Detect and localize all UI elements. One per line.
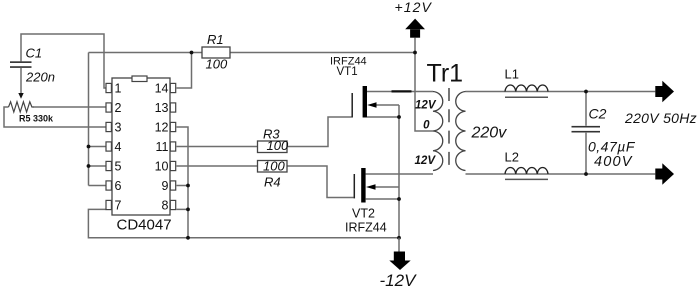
svg-text:VT2: VT2 xyxy=(352,207,375,221)
wire top rail to R1 and +12V xyxy=(89,52,416,54)
svg-text:6: 6 xyxy=(115,179,122,193)
wire pin 10 to R4 xyxy=(177,165,258,167)
junction dot VT1 source xyxy=(397,115,401,119)
junction dot bus pin5 xyxy=(87,164,91,168)
junction dot bus pin8 xyxy=(186,208,190,212)
svg-text:12V: 12V xyxy=(415,100,437,112)
potentiometer R5 wiper arrow xyxy=(18,93,23,99)
resistor R4 xyxy=(258,158,288,189)
resistor R3 xyxy=(258,127,289,154)
svg-text:IRFZ44: IRFZ44 xyxy=(345,221,387,235)
svg-text:R1: R1 xyxy=(207,32,224,47)
svg-text:11: 11 xyxy=(156,140,169,154)
svg-text:L1: L1 xyxy=(505,67,519,82)
core xyxy=(448,88,450,168)
output arrow top xyxy=(655,81,674,102)
wire R5 right end to pin 2 xyxy=(33,106,106,108)
svg-text:220V 50Hz: 220V 50Hz xyxy=(624,110,697,126)
secondary winding xyxy=(456,92,466,171)
wire VT2 drain to transformer bottom xyxy=(366,173,433,175)
svg-text:R4: R4 xyxy=(264,175,281,190)
capacitor C2 xyxy=(572,106,636,171)
svg-text:0: 0 xyxy=(423,120,430,132)
junction dot C2 top xyxy=(584,90,588,94)
junction dot bottom rail xyxy=(397,236,401,240)
junction dot R1/pin14 xyxy=(190,51,194,55)
svg-text:Tr1: Tr1 xyxy=(427,60,464,88)
transistor Q1 VT1 IRFZ44 xyxy=(330,56,399,118)
svg-text:220v: 220v xyxy=(471,125,508,142)
junction dot C2 bottom xyxy=(584,172,588,176)
IC U1 CD4047 body xyxy=(112,76,172,234)
svg-text:7: 7 xyxy=(115,198,122,212)
svg-text:400V: 400V xyxy=(594,154,633,170)
power -12V xyxy=(380,238,418,288)
svg-text:CD4047: CD4047 xyxy=(117,217,172,234)
svg-text:100: 100 xyxy=(206,57,228,72)
IC pin numbers right 14-8 xyxy=(155,81,169,212)
potentiometer R5 zigzag xyxy=(9,102,34,112)
output arrow bottom xyxy=(655,163,674,184)
wire secondary top to output xyxy=(466,91,656,93)
wire thick segment on VT1 drain xyxy=(392,90,412,92)
svg-text:8: 8 xyxy=(162,198,169,212)
svg-text:10: 10 xyxy=(155,159,169,173)
svg-text:VT1: VT1 xyxy=(337,66,358,78)
svg-text:2: 2 xyxy=(115,101,122,115)
svg-text:13: 13 xyxy=(155,101,169,115)
svg-text:L2: L2 xyxy=(505,150,519,165)
wire pin 11 to R3 xyxy=(177,146,258,148)
inductor L2 xyxy=(505,150,549,180)
svg-text:5: 5 xyxy=(115,159,122,173)
wire secondary bottom to output xyxy=(466,173,656,175)
svg-text:100: 100 xyxy=(267,138,289,153)
svg-text:100: 100 xyxy=(263,158,285,173)
svg-text:9: 9 xyxy=(162,179,169,193)
capacitor C1 xyxy=(10,46,55,85)
svg-text:220n: 220n xyxy=(25,70,55,85)
wire R4 to VT2 gate xyxy=(287,166,354,198)
junction dot bus pin9 xyxy=(186,184,190,188)
wire VSS bus pins 12,9,8 xyxy=(177,127,189,238)
primary winding xyxy=(433,92,443,171)
junction dot +12V rail xyxy=(413,51,417,55)
wire VT1 source bus down to rail xyxy=(398,105,400,238)
IC pin stubs right xyxy=(170,83,175,209)
wire C2 vertical xyxy=(585,92,587,175)
transistor Q2 VT2 IRFZ44 xyxy=(345,168,399,235)
svg-text:12V: 12V xyxy=(415,155,437,167)
svg-text:-12V: -12V xyxy=(380,271,418,288)
junction dot bus rail xyxy=(186,236,190,240)
svg-text:14: 14 xyxy=(155,81,169,95)
wire pin 7 to bottom rail xyxy=(88,209,399,237)
wire R3 to VT1 gate xyxy=(287,117,352,147)
IC pin stubs left xyxy=(106,83,111,209)
svg-text:3: 3 xyxy=(115,120,122,134)
wire VDD bus pins 4,5,6 xyxy=(89,53,106,186)
transformer Tr1 xyxy=(415,60,508,171)
svg-text:0,47µF: 0,47µF xyxy=(588,139,636,155)
inductor L1 xyxy=(505,67,549,98)
svg-text:C2: C2 xyxy=(589,106,607,122)
wire +12V vertical to center tap xyxy=(415,38,433,131)
svg-text:12: 12 xyxy=(155,120,169,134)
svg-text:4: 4 xyxy=(115,140,122,154)
wire junction to pin 14 xyxy=(177,53,192,89)
junction dot bus pin4 xyxy=(87,145,91,149)
svg-text:R5 330k: R5 330k xyxy=(19,114,54,124)
wire R5 left end loop to pin 3 xyxy=(4,107,106,127)
wire VT1 drain to transformer top xyxy=(367,91,433,93)
svg-text:C1: C1 xyxy=(26,46,43,61)
IC pin numbers left 1-7 xyxy=(115,81,122,212)
svg-text:+12V: +12V xyxy=(395,0,433,15)
wire top-left loop C1 top to pin 1 xyxy=(21,34,106,88)
wire R5 wiper from C1 xyxy=(20,68,22,94)
power +12V xyxy=(395,0,433,38)
svg-text:1: 1 xyxy=(115,81,122,95)
resistor R1 xyxy=(202,32,230,72)
junction dot VT2 source xyxy=(397,197,401,201)
